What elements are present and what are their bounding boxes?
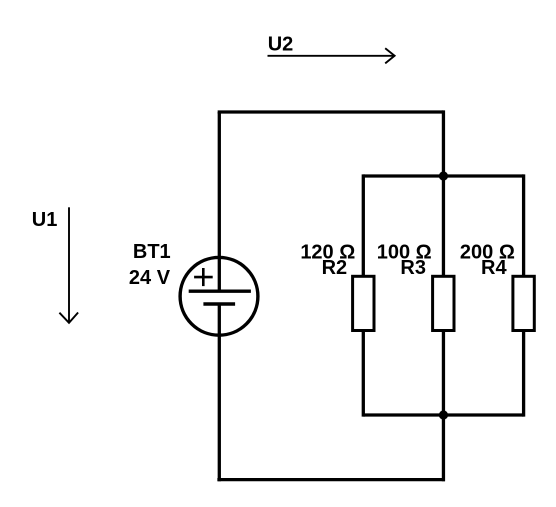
battery BT1 circle	[180, 257, 258, 335]
wire: bottom rail of parallel resistors	[363, 413, 523, 416]
resistor R3 body	[433, 276, 454, 330]
voltage arrow U2 (pointing right)	[268, 48, 395, 63]
svg-text:24 V: 24 V	[129, 267, 171, 289]
battery BT1 negative plate	[203, 302, 235, 305]
wire: left branch from top rail to R2	[362, 174, 365, 278]
battery BT1 positive plate	[189, 290, 251, 293]
svg-text:U1: U1	[32, 209, 58, 231]
battery BT1 plus sign	[194, 268, 213, 286]
wire: right branch from R4 to bottom rail	[522, 329, 525, 417]
wire: middle branch drop from top wire to node A	[442, 110, 445, 176]
wire: bottom horizontal back to battery branch	[217, 478, 445, 481]
svg-text:U2: U2	[268, 33, 294, 55]
wire: right branch from top rail to R4	[522, 174, 525, 278]
wire: battery bottom lead from bottom wire	[218, 304, 221, 481]
wire: left branch from R2 to bottom rail	[362, 329, 365, 417]
wire: middle branch drop from node B to bottom wire	[442, 415, 445, 481]
svg-text:R2: R2	[322, 257, 348, 279]
node B junction dot (bottom)	[439, 410, 448, 419]
wire: top rail of parallel resistors	[363, 174, 523, 177]
wire: battery top lead up to top-left corner	[218, 112, 221, 291]
resistor R2 body	[353, 276, 374, 330]
svg-text:R4: R4	[481, 257, 507, 279]
wire: middle branch from node A to R3	[442, 176, 445, 278]
svg-text:BT1: BT1	[133, 241, 171, 263]
wire: middle branch from R3 to node B	[442, 329, 445, 415]
voltage arrow U1 (pointing down)	[59, 207, 78, 322]
resistor R4 body	[513, 276, 534, 330]
node A junction dot (top)	[439, 171, 448, 180]
svg-text:R3: R3	[400, 257, 426, 279]
wire: top horizontal from battery branch to middle branch	[218, 110, 444, 113]
